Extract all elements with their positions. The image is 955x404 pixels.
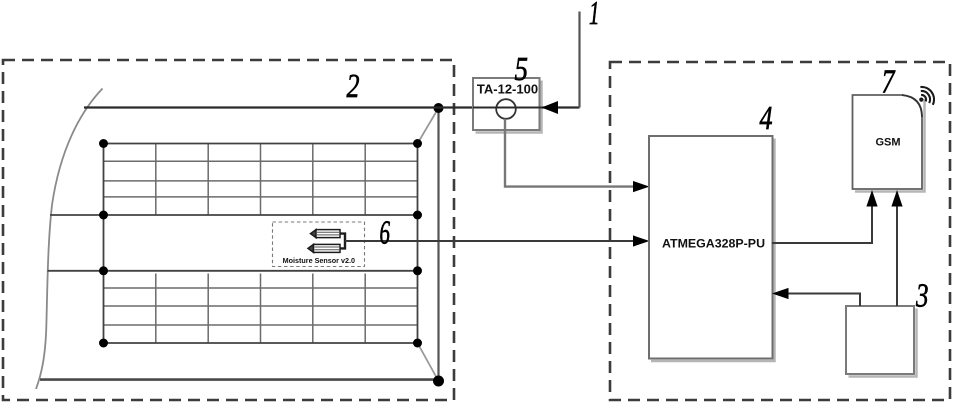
svg-text:1: 1 <box>589 0 600 32</box>
svg-text:6: 6 <box>380 215 391 252</box>
svg-text:7: 7 <box>882 64 897 101</box>
svg-text:TA-12-100: TA-12-100 <box>477 82 538 97</box>
svg-text:Moisture Sensor v2.0: Moisture Sensor v2.0 <box>283 256 355 265</box>
svg-text:4: 4 <box>760 100 773 137</box>
svg-text:ATMEGA328P-PU: ATMEGA328P-PU <box>662 237 765 251</box>
svg-text:2: 2 <box>347 68 360 105</box>
svg-text:GSM: GSM <box>875 137 900 149</box>
svg-text:5: 5 <box>515 51 529 88</box>
svg-text:3: 3 <box>915 278 928 315</box>
